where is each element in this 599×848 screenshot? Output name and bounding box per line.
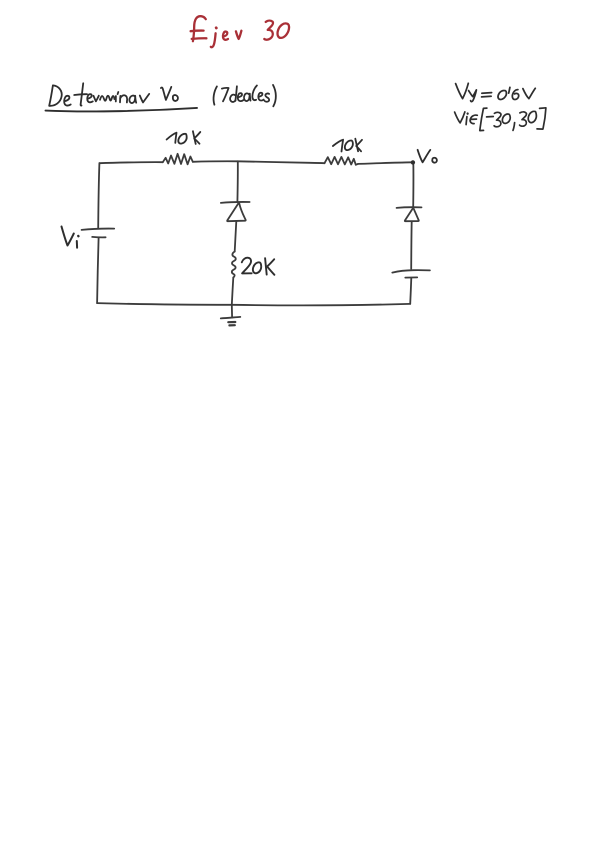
ground bar 3 [229, 324, 234, 326]
title Ejer 30 (red) [191, 16, 289, 47]
e [87, 94, 93, 102]
m [100, 96, 114, 101]
note line 2: Vi in [-30,30] [455, 108, 546, 131]
a [244, 93, 250, 101]
wire R2 to node Vo [358, 162, 412, 164]
label 10k for R1 [167, 131, 201, 144]
) [273, 85, 276, 106]
label 10k for R2 [333, 139, 362, 152]
I [222, 88, 229, 101]
n [119, 96, 121, 102]
resistor R1 10k zigzag [163, 154, 193, 165]
wire middle vertical upper [236, 161, 238, 202]
a [129, 96, 136, 103]
wire left vertical [98, 163, 99, 228]
l [252, 86, 257, 101]
note line 1: Vg = 0'6 V [456, 83, 536, 101]
resistor R3 20K squiggle [232, 252, 236, 278]
i [115, 96, 117, 102]
e [238, 93, 244, 101]
wire top-left horizontal [99, 162, 162, 163]
wire battery Vi to bottom-left corner [97, 238, 99, 303]
r [94, 96, 99, 102]
label 20K for R3 [242, 258, 275, 275]
ground bar 2 [228, 321, 235, 323]
( [214, 86, 217, 104]
wire D2 to battery V2 [410, 222, 413, 269]
resistor R2 10k zigzag [325, 157, 359, 165]
wire battery V2 to bottom-right corner [410, 278, 411, 304]
underline [46, 108, 198, 112]
wire D1 to R3 [235, 221, 237, 251]
d [230, 95, 235, 102]
wire bottom horizontal [97, 303, 410, 305]
diode D1 triangle [227, 203, 246, 221]
t [81, 83, 84, 105]
battery Vi long plate [82, 229, 115, 230]
e [64, 96, 71, 106]
wire R3 to bottom [232, 278, 234, 305]
diode D2 cathode bar [397, 206, 422, 209]
e [258, 93, 263, 101]
wire right vertical upper [412, 162, 414, 206]
circuit wires and components [82, 154, 430, 326]
o [173, 95, 178, 101]
battery V2 short plate [405, 276, 417, 278]
battery V2 long plate [392, 270, 430, 272]
ground stub [231, 305, 233, 318]
diode D2 triangle [405, 208, 419, 221]
wire node to R2 [238, 161, 325, 163]
r [140, 94, 149, 103]
battery Vi short plate [92, 236, 105, 238]
s [265, 93, 270, 101]
label Vi at source [62, 227, 79, 248]
wire R1 to node [193, 160, 238, 163]
ground bar 1 [221, 317, 241, 319]
V [161, 87, 171, 100]
label Vo at output node [418, 150, 437, 163]
D [49, 85, 53, 105]
handwritten heading: Determinar Vo (Ideales) [46, 83, 276, 111]
node Vo dot [411, 160, 415, 164]
diode D1 cathode bar [221, 201, 250, 204]
